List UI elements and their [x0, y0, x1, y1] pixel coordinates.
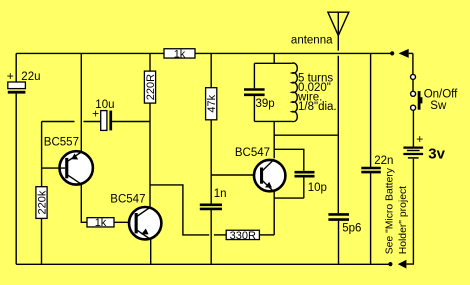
capacitor 22u electrolytic — [7, 69, 41, 94]
svg-text:1n: 1n — [214, 188, 227, 200]
svg-text:+: + — [416, 132, 423, 146]
wire Q3 emitter chain — [273, 191, 275, 235]
svg-text:On/Off: On/Off — [424, 89, 458, 101]
wire 10p bottom stub — [303, 178, 305, 199]
wire tank left upper — [253, 63, 255, 88]
wire Q3 base lead — [211, 174, 258, 176]
svg-text:10p: 10p — [308, 182, 327, 194]
wire Q3 collector vertical — [273, 121, 275, 158]
svg-text:220k: 220k — [37, 190, 49, 214]
inductor text 5 turns spec — [297, 72, 337, 113]
wire 22n to ground rail — [370, 173, 372, 264]
svg-text:+: + — [7, 69, 14, 83]
wire 220k to ground rail — [41, 218, 43, 264]
svg-text:330R: 330R — [230, 230, 256, 242]
wire left edge top — [15, 53, 17, 82]
wire battery to bottom corner — [406, 159, 413, 264]
wire BC557 collector to 1k — [81, 184, 87, 222]
wire 47k top lead — [210, 53, 212, 87]
resistor 47k (Q3 base bias) — [206, 88, 219, 120]
svg-text:5p6: 5p6 — [342, 223, 361, 235]
resistor 1k (top, collector load) — [164, 48, 195, 60]
transistor Q1 BC557 (PNP) — [44, 137, 93, 185]
svg-text:See "Micro Battery: See "Micro Battery — [385, 167, 396, 254]
wire tank bottom — [254, 120, 292, 122]
transistor Q3 BC547 (NPN, oscillator) — [235, 147, 286, 192]
wire BC557 emitter to rail — [80, 53, 82, 152]
svg-text:47k: 47k — [206, 94, 218, 112]
antenna symbol — [291, 12, 349, 50]
connector arrow from battery (bottom) — [398, 260, 407, 269]
wire tank left lower — [253, 96, 255, 121]
wire 10u right lead — [112, 121, 150, 123]
resistor 220k (base bias) — [36, 187, 49, 219]
wire 220R top lead — [149, 53, 151, 71]
svg-text:antenna: antenna — [291, 35, 333, 47]
battery 3v plus sign — [416, 132, 423, 146]
svg-text:BC547: BC547 — [235, 147, 270, 159]
wire tank feed from rail — [273, 53, 275, 63]
wire switch to battery — [412, 110, 414, 146]
svg-text:1k: 1k — [95, 217, 107, 229]
wire bottom rail — [16, 263, 390, 265]
svg-text:39p: 39p — [256, 98, 275, 110]
wire 22n drop from rail — [370, 53, 372, 166]
node ground dot (bottom right) — [388, 262, 392, 266]
svg-text:BC557: BC557 — [44, 137, 79, 149]
svg-text:22u: 22u — [21, 71, 40, 83]
wire 10u-left branch corner — [42, 122, 75, 187]
wire emitter tee to 10p bottom — [274, 197, 304, 199]
capacitor 39p (tank) — [244, 90, 275, 111]
wire switch top lead — [412, 53, 414, 74]
resistor 220R (collector load) — [144, 71, 157, 103]
capacitor 10u electrolytic — [92, 99, 114, 131]
resistor 1k (interstage) — [87, 217, 114, 229]
svg-text:Holder" project: Holder" project — [398, 186, 409, 254]
wire 330R right lead — [259, 234, 274, 236]
wire BC557 base lead — [42, 167, 66, 169]
capacitor 10p (feedback) — [295, 172, 327, 194]
wire 10p top stub — [274, 149, 304, 171]
wire 47k to 1n — [210, 120, 212, 204]
switch SW1 On/Off — [411, 74, 459, 112]
wire 10u hop segment — [84, 121, 101, 123]
note rotated text See Micro Battery Holder project — [385, 167, 409, 254]
wire tank top — [254, 62, 292, 64]
svg-text:10u: 10u — [95, 99, 114, 111]
wire feedback hop segment — [214, 234, 226, 236]
wire top rail left segment — [16, 52, 164, 54]
resistor 330R (Q3 emitter) — [226, 230, 259, 242]
wire 1k to Q2 base — [114, 221, 135, 223]
wire left edge bottom — [15, 94, 17, 265]
svg-text:1k: 1k — [174, 48, 186, 60]
svg-text:1/8"dia.: 1/8"dia. — [298, 101, 337, 113]
capacitor 5p6 (antenna coupling) — [328, 214, 361, 234]
capacitor 1n — [200, 188, 227, 209]
svg-text:BC547: BC547 — [110, 193, 145, 205]
battery BT1 3v — [403, 145, 445, 162]
connector arrow to switch (top) — [399, 49, 413, 58]
wire top rail right segment — [195, 52, 392, 54]
svg-text:220R: 220R — [145, 74, 157, 100]
wire Q2 collector vertical — [149, 103, 151, 207]
inductor L1 coil 5 turns — [292, 63, 297, 122]
svg-text:22n: 22n — [374, 155, 393, 167]
svg-text:3v: 3v — [428, 145, 445, 162]
transistor Q2 BC547 (NPN, audio) — [110, 193, 161, 239]
wire 1n to ground rail — [210, 210, 212, 264]
svg-text:Sw: Sw — [430, 100, 447, 112]
wire antenna line below rail — [337, 56, 339, 214]
capacitor 22n (supply bypass) — [361, 155, 393, 172]
wire Q2 emitter to ground — [150, 240, 152, 265]
wire 5p6 to ground rail — [338, 221, 340, 264]
node supply dot (top right) — [390, 51, 394, 55]
wire feedback to 330R (upper) — [150, 185, 209, 235]
wire collector to antenna line — [274, 134, 338, 136]
